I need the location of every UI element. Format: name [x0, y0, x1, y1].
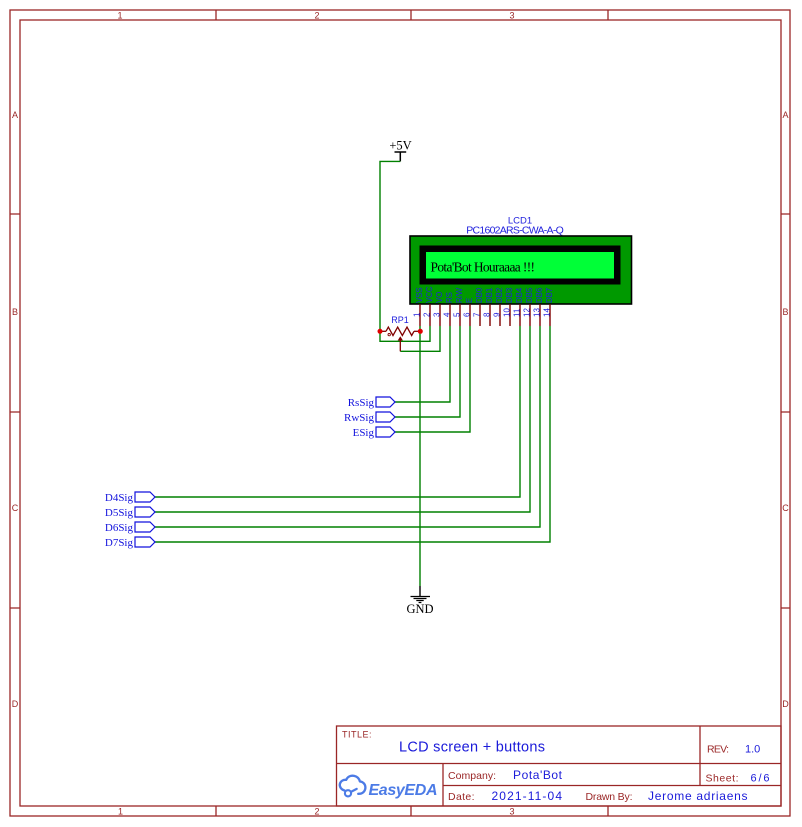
svg-text:9: 9: [493, 312, 502, 317]
svg-text:+5V: +5V: [389, 139, 411, 153]
svg-text:6: 6: [463, 312, 472, 317]
svg-text:DB7: DB7: [545, 288, 554, 303]
svg-text:2: 2: [423, 312, 432, 317]
svg-text:DB0: DB0: [475, 287, 484, 303]
svg-text:B: B: [782, 307, 788, 317]
svg-text:A: A: [12, 110, 18, 120]
wire VCC pin2 to +5V net: [380, 326, 430, 341]
svg-text:7: 7: [473, 312, 482, 317]
svg-text:D7Sig: D7Sig: [105, 537, 134, 549]
wire VSS pin1 to GND: [419, 326, 421, 586]
RP1 label: [391, 315, 409, 325]
svg-text:14: 14: [543, 308, 552, 317]
wire RS pin4 to RsSig: [395, 326, 450, 402]
svg-text:RS: RS: [445, 292, 454, 303]
svg-text:2021-11-04: 2021-11-04: [492, 789, 563, 803]
EasyEDA logo: [340, 776, 438, 799]
wire +5V to RP1 pin1: [380, 161, 400, 331]
wire RW pin5 to RwSig: [395, 326, 460, 417]
title block: [337, 726, 782, 806]
net flag D5Sig: [105, 507, 155, 519]
svg-text:TITLE:: TITLE:: [342, 730, 372, 740]
svg-text:3: 3: [509, 10, 514, 20]
ground GND: [406, 586, 433, 616]
svg-text:DB1: DB1: [485, 288, 494, 303]
svg-text:12: 12: [523, 308, 532, 317]
svg-text:4: 4: [443, 312, 452, 317]
junction RP1.2 / VSS wire: [418, 329, 423, 334]
svg-text:DB2: DB2: [495, 288, 504, 303]
svg-text:A: A: [782, 110, 788, 120]
svg-text:3: 3: [509, 806, 514, 816]
svg-text:VO: VO: [435, 292, 444, 303]
wire VO pin3 to RP1 wiper: [400, 326, 440, 351]
svg-text:Sheet:: Sheet:: [706, 773, 739, 785]
svg-text:D: D: [12, 699, 19, 709]
svg-text:1.0: 1.0: [745, 744, 760, 756]
net flag D7Sig: [105, 537, 155, 549]
wire E pin6 to ESig: [395, 326, 470, 432]
wire DB4 pin11 to D4Sig: [155, 326, 520, 497]
svg-text:2: 2: [314, 806, 319, 816]
LCD1 reference label: [508, 216, 532, 227]
svg-text:2: 2: [314, 10, 319, 20]
svg-text:REV:: REV:: [707, 744, 729, 756]
svg-text:Drawn By:: Drawn By:: [586, 791, 633, 803]
svg-text:VCC: VCC: [425, 286, 434, 303]
svg-text:RwSig: RwSig: [344, 412, 374, 424]
svg-text:1: 1: [118, 806, 123, 816]
svg-text:DB5: DB5: [525, 287, 534, 303]
svg-text:RsSig: RsSig: [348, 397, 375, 409]
svg-text:LCD screen + buttons: LCD screen + buttons: [399, 740, 545, 756]
junction +5V / RP1.1 / VCC: [378, 329, 383, 334]
svg-text:8: 8: [483, 312, 492, 317]
net flag RsSig: [348, 397, 395, 409]
svg-text:11: 11: [513, 308, 522, 317]
svg-text:6/6: 6/6: [751, 773, 770, 785]
svg-text:D6Sig: D6Sig: [105, 522, 134, 534]
svg-text:Date:: Date:: [448, 791, 475, 803]
svg-text:Company:: Company:: [448, 770, 496, 782]
net flag D4Sig: [105, 492, 155, 504]
net flag RwSig: [344, 412, 395, 424]
svg-text:VSS: VSS: [415, 287, 424, 303]
LCD1 screen text: [431, 260, 536, 275]
svg-text:D4Sig: D4Sig: [105, 492, 134, 504]
svg-text:D5Sig: D5Sig: [105, 507, 134, 519]
svg-text:3: 3: [433, 312, 442, 317]
svg-text:1: 1: [413, 312, 422, 317]
svg-text:B: B: [12, 307, 18, 317]
svg-text:RP1: RP1: [391, 315, 409, 325]
svg-text:Pota'Bot: Pota'Bot: [513, 768, 563, 782]
LCD1 pins 1-14 stubs: [420, 304, 550, 326]
power +5V: [389, 139, 411, 162]
svg-text:10: 10: [503, 308, 512, 317]
net flag ESig: [353, 427, 395, 439]
LCD1 value PC1602ARS-CWA-A-Q: [466, 225, 564, 237]
wire DB6 pin13 to D6Sig: [155, 326, 540, 527]
svg-text:PC1602ARS-CWA-A-Q: PC1602ARS-CWA-A-Q: [466, 225, 564, 237]
svg-text:1: 1: [117, 10, 122, 20]
svg-text:DB4: DB4: [515, 287, 524, 303]
svg-text:DB6: DB6: [535, 288, 544, 303]
svg-text:D: D: [782, 699, 789, 709]
net flag D6Sig: [105, 522, 155, 534]
svg-text:R/W: R/W: [455, 287, 464, 303]
svg-text:Pota'Bot Houraaaa !!!: Pota'Bot Houraaaa !!!: [431, 260, 536, 275]
svg-text:GND: GND: [406, 602, 433, 616]
svg-text:13: 13: [533, 308, 542, 317]
wire DB5 pin12 to D5Sig: [155, 326, 530, 512]
resistor RP1: [380, 327, 420, 351]
svg-text:E: E: [465, 298, 474, 303]
svg-text:Jerome adriaens: Jerome adriaens: [648, 789, 748, 803]
svg-text:5: 5: [453, 312, 462, 317]
LCD1 body: [410, 236, 632, 304]
svg-text:C: C: [12, 503, 19, 513]
svg-text:ESig: ESig: [353, 427, 375, 439]
svg-text:DB3: DB3: [505, 288, 514, 303]
svg-text:EasyEDA: EasyEDA: [369, 782, 438, 799]
svg-text:C: C: [782, 503, 789, 513]
wire DB7 pin14 to D7Sig: [155, 326, 550, 542]
